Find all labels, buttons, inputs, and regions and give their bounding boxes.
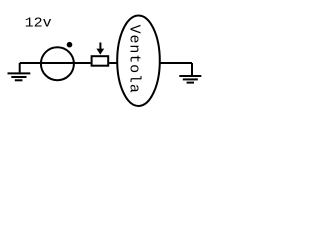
svg-text:12v: 12v [25, 15, 52, 31]
svg-text:Ventola: Ventola [126, 25, 143, 93]
